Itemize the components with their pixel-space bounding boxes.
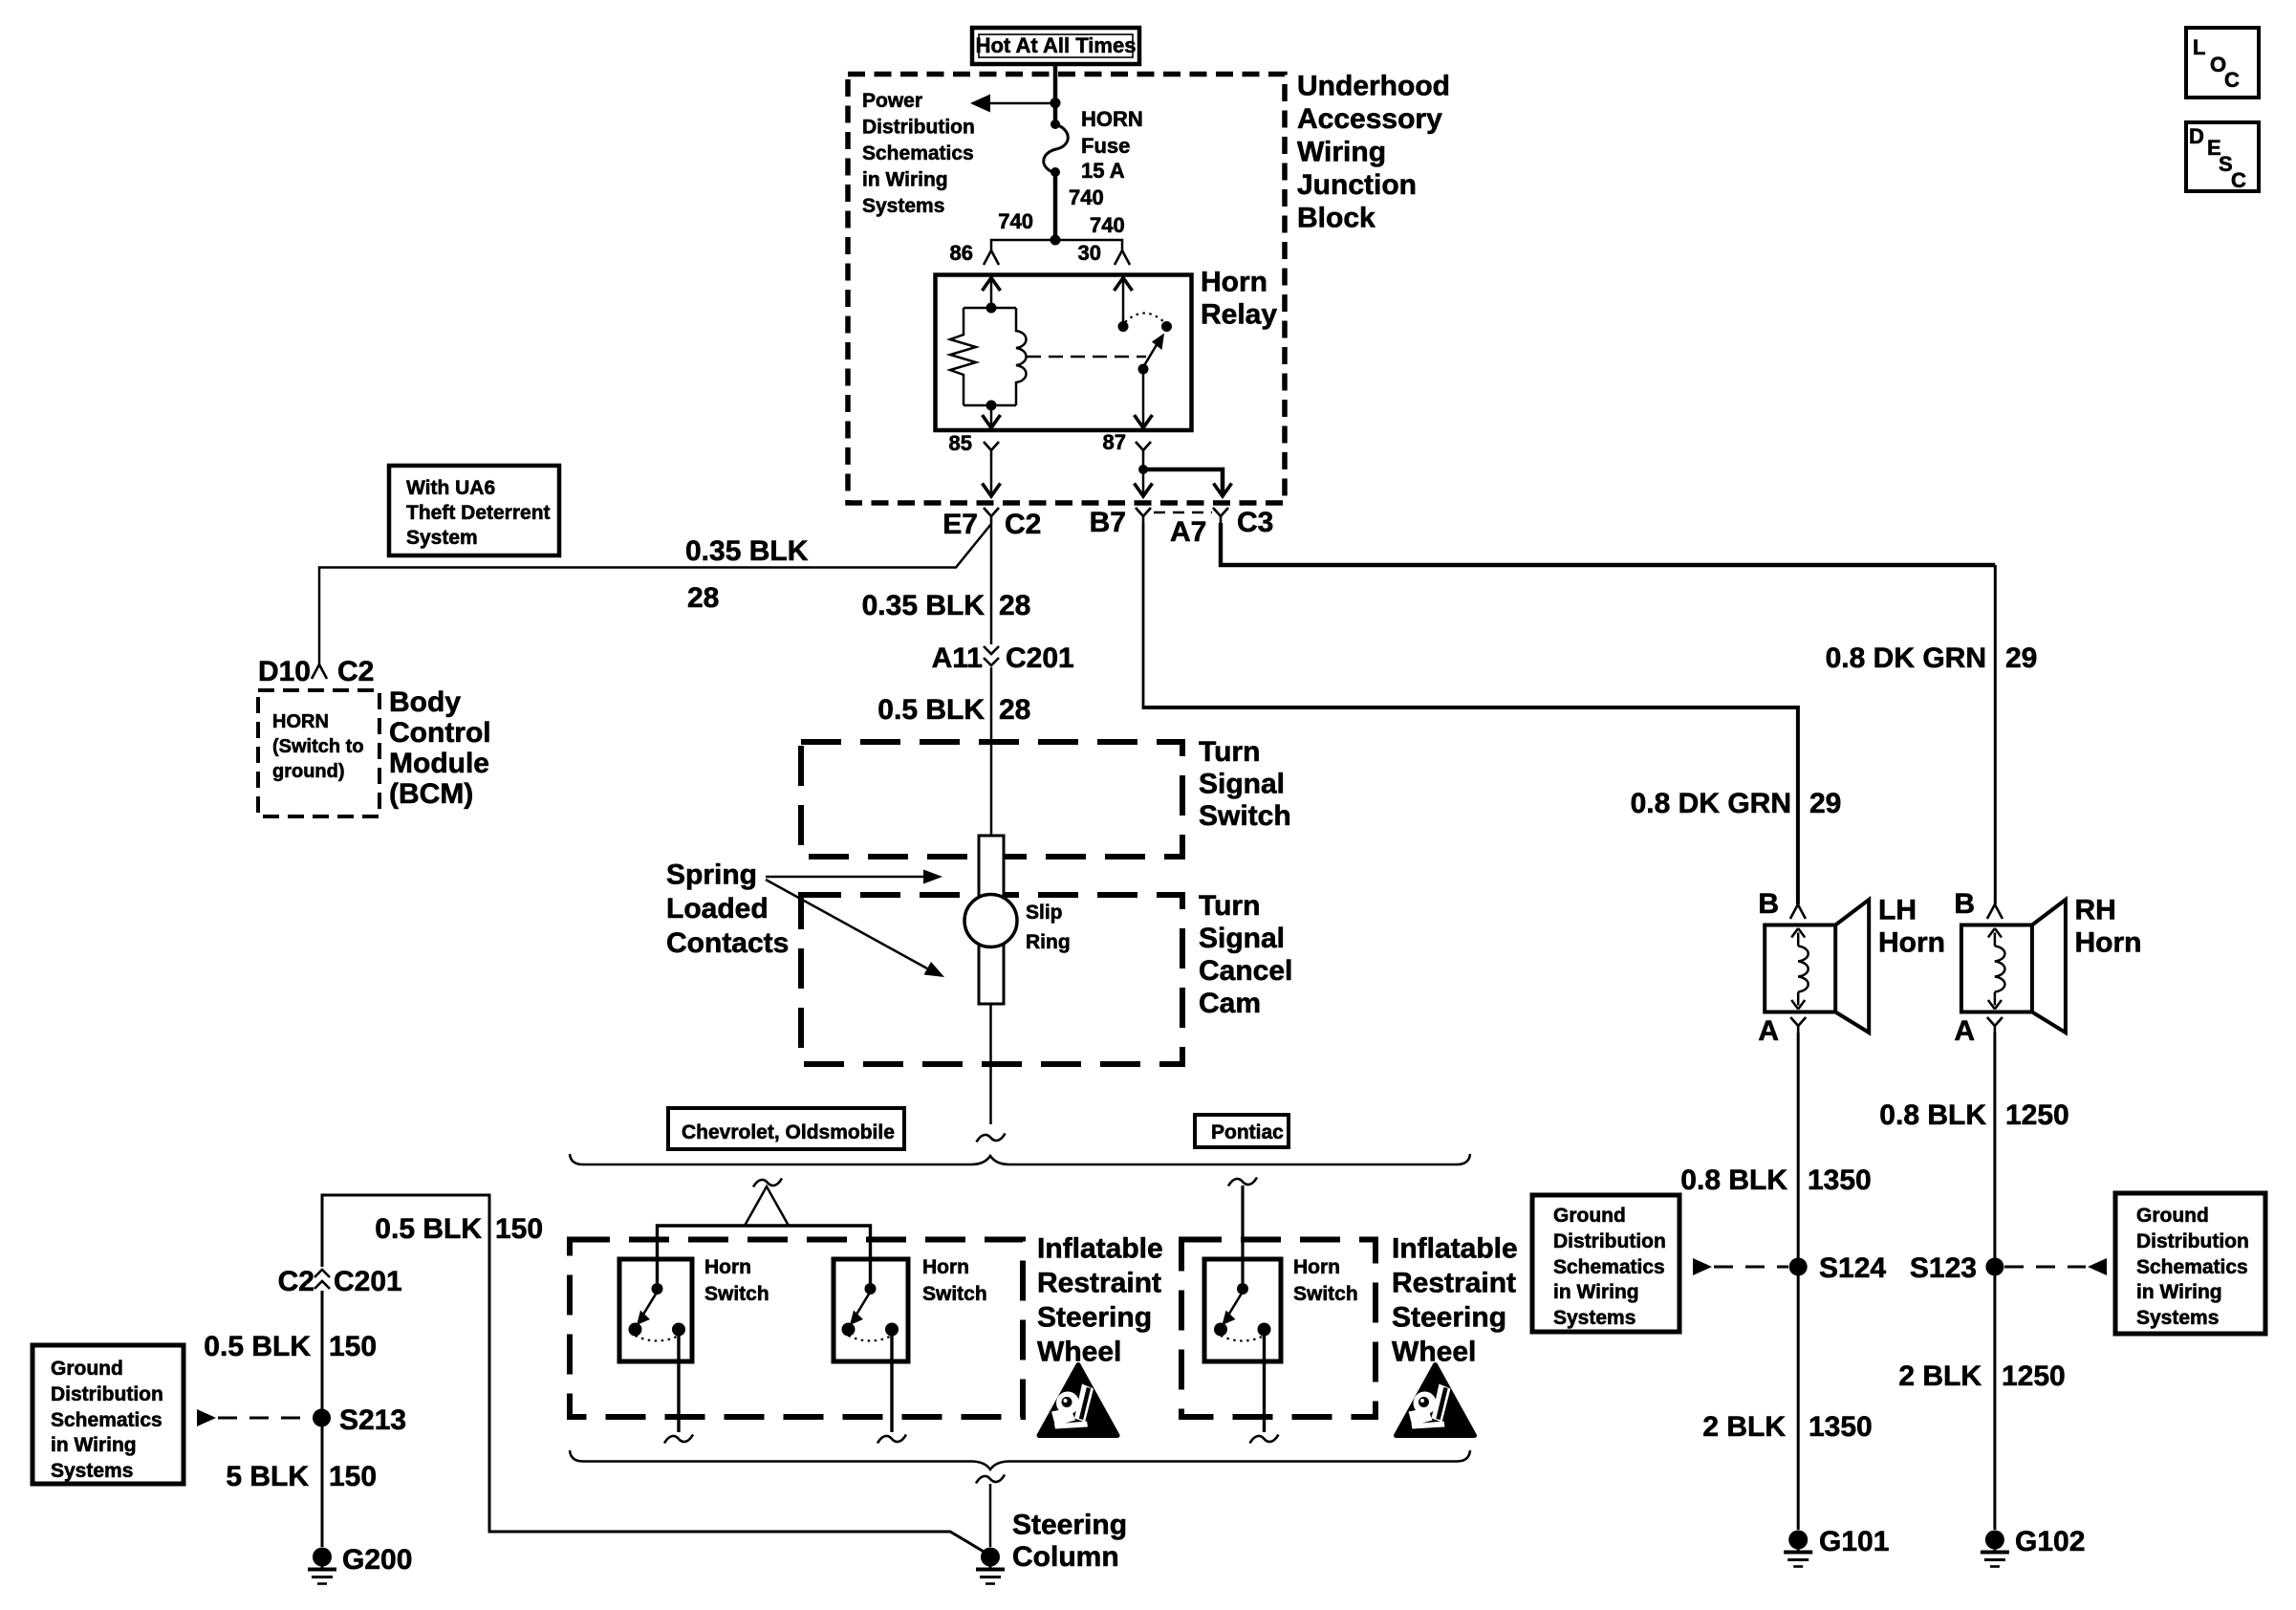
svg-text:Signal: Signal [1199, 923, 1285, 954]
svg-text:Turn: Turn [1199, 890, 1260, 922]
svg-text:Column: Column [1012, 1541, 1119, 1573]
svg-text:Horn: Horn [1201, 267, 1267, 298]
svg-text:C: C [2231, 168, 2246, 192]
svg-text:S213: S213 [339, 1404, 406, 1436]
svg-text:E7: E7 [942, 509, 978, 540]
svg-text:Switch: Switch [1199, 800, 1291, 832]
svg-text:15 A: 15 A [1081, 159, 1125, 183]
svg-text:150: 150 [329, 1331, 377, 1362]
svg-text:C3: C3 [1237, 507, 1273, 538]
svg-text:A: A [1758, 1015, 1779, 1047]
svg-text:28: 28 [999, 694, 1030, 726]
svg-text:Fuse: Fuse [1081, 134, 1130, 158]
svg-text:0.8 BLK: 0.8 BLK [1680, 1164, 1787, 1196]
svg-text:0.8 DK GRN: 0.8 DK GRN [1826, 642, 1986, 674]
svg-text:Switch: Switch [922, 1283, 987, 1305]
svg-text:B: B [1954, 888, 1975, 920]
svg-text:Theft Deterrent: Theft Deterrent [406, 502, 551, 524]
svg-text:Ring: Ring [1026, 931, 1071, 953]
svg-text:(BCM): (BCM) [389, 778, 473, 810]
svg-text:Inflatable: Inflatable [1037, 1233, 1163, 1265]
svg-text:Ground: Ground [1553, 1205, 1626, 1227]
svg-text:S124: S124 [1819, 1252, 1886, 1284]
svg-text:0.8 BLK: 0.8 BLK [1879, 1099, 1986, 1131]
svg-text:Body: Body [389, 686, 461, 718]
svg-text:RH: RH [2075, 895, 2116, 926]
svg-text:Distribution: Distribution [862, 117, 975, 139]
svg-text:in Wiring: in Wiring [2136, 1281, 2222, 1303]
svg-text:G101: G101 [1819, 1526, 1889, 1557]
svg-text:0.5 BLK: 0.5 BLK [375, 1213, 482, 1245]
svg-text:29: 29 [1809, 788, 1841, 819]
svg-text:Power: Power [862, 90, 922, 112]
svg-text:G102: G102 [2015, 1526, 2085, 1557]
svg-text:Steering: Steering [1037, 1302, 1152, 1334]
svg-text:Ground: Ground [2136, 1205, 2209, 1227]
svg-text:B: B [1758, 888, 1779, 920]
svg-text:Cam: Cam [1199, 988, 1261, 1019]
svg-text:Distribution: Distribution [2136, 1230, 2249, 1252]
svg-text:5 BLK: 5 BLK [226, 1461, 309, 1492]
svg-text:C2: C2 [1005, 509, 1041, 540]
svg-text:C: C [2224, 68, 2240, 92]
svg-text:Horn: Horn [1293, 1256, 1340, 1278]
svg-text:Schematics: Schematics [2136, 1256, 2248, 1278]
svg-text:0.5 BLK: 0.5 BLK [877, 694, 985, 726]
svg-text:ground): ground) [272, 761, 345, 782]
svg-text:Schematics: Schematics [862, 142, 974, 164]
svg-text:Pontiac: Pontiac [1211, 1121, 1284, 1143]
svg-text:Systems: Systems [1553, 1307, 1635, 1329]
svg-text:Cancel: Cancel [1199, 955, 1292, 987]
svg-text:Switch: Switch [704, 1283, 769, 1305]
svg-text:Turn: Turn [1199, 736, 1260, 768]
svg-text:Ground: Ground [51, 1358, 123, 1380]
svg-text:Contacts: Contacts [666, 927, 789, 959]
svg-text:28: 28 [687, 582, 719, 614]
svg-text:Horn: Horn [704, 1256, 751, 1278]
svg-text:Horn: Horn [922, 1256, 969, 1278]
svg-text:Systems: Systems [862, 195, 944, 217]
svg-text:Distribution: Distribution [51, 1383, 163, 1405]
svg-text:L: L [2193, 35, 2205, 59]
svg-text:With UA6: With UA6 [406, 477, 495, 499]
svg-text:Underhood: Underhood [1297, 71, 1450, 102]
svg-text:Switch: Switch [1293, 1283, 1358, 1305]
svg-text:System: System [406, 527, 478, 549]
svg-text:Restraint: Restraint [1392, 1268, 1516, 1299]
svg-text:in Wiring: in Wiring [51, 1434, 137, 1456]
svg-text:86: 86 [950, 241, 973, 265]
svg-text:2 BLK: 2 BLK [1702, 1411, 1786, 1443]
svg-text:Signal: Signal [1199, 769, 1285, 800]
svg-text:Junction: Junction [1297, 169, 1417, 201]
svg-text:in Wiring: in Wiring [862, 169, 948, 191]
svg-text:LH: LH [1878, 895, 1917, 926]
svg-text:150: 150 [329, 1461, 377, 1492]
svg-text:0.5 BLK: 0.5 BLK [204, 1331, 311, 1362]
svg-text:Chevrolet, Oldsmobile: Chevrolet, Oldsmobile [682, 1121, 895, 1143]
svg-text:740: 740 [998, 209, 1033, 233]
svg-text:Systems: Systems [2136, 1307, 2219, 1329]
svg-text:29: 29 [2005, 642, 2037, 674]
svg-text:C2: C2 [337, 656, 374, 687]
svg-text:D10: D10 [258, 656, 311, 687]
svg-text:30: 30 [1078, 241, 1101, 265]
svg-text:87: 87 [1103, 430, 1126, 454]
svg-text:Steering: Steering [1392, 1302, 1506, 1334]
svg-text:G200: G200 [342, 1544, 412, 1576]
svg-text:Inflatable: Inflatable [1392, 1233, 1518, 1265]
svg-text:Module: Module [389, 748, 489, 779]
svg-text:Slip: Slip [1026, 902, 1063, 924]
svg-text:Accessory: Accessory [1297, 103, 1442, 135]
svg-text:Horn: Horn [1878, 927, 1945, 959]
svg-text:Systems: Systems [51, 1460, 133, 1482]
svg-text:Restraint: Restraint [1037, 1268, 1161, 1299]
svg-text:Horn: Horn [2075, 927, 2142, 959]
svg-text:740: 740 [1090, 213, 1125, 237]
svg-text:B7: B7 [1090, 507, 1126, 538]
svg-text:Schematics: Schematics [1553, 1256, 1665, 1278]
svg-text:0.35 BLK: 0.35 BLK [685, 535, 809, 567]
svg-text:Schematics: Schematics [51, 1409, 162, 1431]
svg-text:28: 28 [999, 590, 1030, 621]
svg-text:Wiring: Wiring [1297, 137, 1386, 168]
svg-text:1350: 1350 [1809, 1411, 1873, 1443]
svg-text:0.35 BLK: 0.35 BLK [862, 590, 986, 621]
svg-text:1350: 1350 [1808, 1164, 1872, 1196]
svg-text:85: 85 [949, 431, 972, 455]
svg-text:S123: S123 [1910, 1252, 1977, 1284]
svg-text:(Switch to: (Switch to [272, 736, 364, 757]
svg-text:HORN: HORN [1081, 107, 1143, 131]
svg-text:C201: C201 [334, 1266, 402, 1297]
svg-text:Distribution: Distribution [1553, 1230, 1666, 1252]
svg-text:Steering: Steering [1012, 1510, 1127, 1541]
svg-text:C2: C2 [278, 1266, 314, 1297]
svg-text:in Wiring: in Wiring [1553, 1281, 1639, 1303]
svg-text:A7: A7 [1170, 516, 1206, 548]
svg-text:Block: Block [1297, 203, 1375, 234]
svg-text:0.8 DK GRN: 0.8 DK GRN [1631, 788, 1791, 819]
svg-text:2 BLK: 2 BLK [1898, 1360, 1982, 1392]
svg-text:C201: C201 [1006, 642, 1074, 674]
svg-text:Loaded: Loaded [666, 893, 769, 925]
svg-text:A11: A11 [932, 642, 983, 674]
svg-text:Spring: Spring [666, 859, 757, 891]
svg-text:Hot At All Times: Hot At All Times [976, 33, 1137, 57]
svg-text:A: A [1954, 1015, 1975, 1047]
svg-text:1250: 1250 [2002, 1360, 2066, 1392]
svg-text:150: 150 [495, 1213, 543, 1245]
svg-text:HORN: HORN [272, 711, 329, 732]
svg-text:740: 740 [1069, 185, 1104, 209]
svg-text:Control: Control [389, 717, 491, 749]
svg-text:Relay: Relay [1201, 299, 1277, 331]
svg-text:D: D [2189, 124, 2204, 148]
svg-text:1250: 1250 [2005, 1099, 2069, 1131]
